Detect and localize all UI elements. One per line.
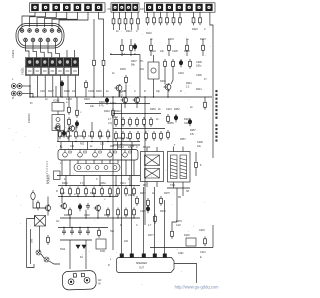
wire	[199, 12, 201, 15]
svg-text:R255: R255	[168, 122, 174, 125]
connector CN201 pin 5	[50, 29, 54, 33]
resistor R35	[91, 130, 94, 140]
capacitor C207	[174, 114, 177, 122]
transistor Q214 on heatsink	[123, 150, 128, 158]
wire	[47, 197, 49, 206]
wire	[172, 222, 177, 229]
junction	[64, 159, 65, 160]
connector CN203 pin 3	[52, 4, 60, 11]
resistor R231	[68, 105, 71, 115]
wire	[115, 176, 117, 186]
connector CN202 pin 11	[49, 67, 56, 74]
resistor R275	[160, 196, 163, 206]
wire	[69, 217, 71, 227]
svg-text:C206: C206	[196, 74, 202, 77]
resistor R247	[150, 117, 153, 127]
capacitor C218	[78, 229, 82, 236]
svg-text:C: C	[136, 224, 138, 227]
scan noise (decorative)	[9, 27, 211, 285]
junction	[94, 159, 95, 160]
wire	[87, 142, 89, 150]
capacitor C312	[146, 205, 149, 213]
transistor Q301	[54, 125, 60, 131]
junction	[79, 227, 80, 228]
wire CN201 pin 9 to CN202	[41, 42, 45, 58]
wire	[30, 229, 32, 264]
connector CN201 pin 6	[57, 29, 61, 33]
svg-text:D202: D202	[184, 234, 190, 237]
connector CN201 D-sub shell	[16, 24, 64, 49]
wire bus y227	[58, 227, 108, 229]
transistor Q207	[94, 204, 101, 211]
wire	[131, 26, 133, 30]
svg-text:R: R	[110, 53, 112, 56]
wire	[83, 176, 85, 186]
resistor R220	[172, 16, 175, 26]
wire	[72, 142, 74, 150]
wire assembly bottom bus	[57, 175, 140, 177]
wire	[153, 12, 155, 15]
wire	[121, 104, 123, 254]
connector CN201 pin 11	[54, 38, 58, 42]
connector CN202 pin 6	[64, 58, 71, 65]
wire	[139, 55, 141, 98]
resistor R306	[195, 160, 198, 170]
connector CN205 strip	[145, 3, 216, 12]
capacitor C201	[133, 43, 136, 51]
wire	[195, 170, 197, 176]
connector speaker terminal board	[117, 258, 175, 273]
wire	[202, 39, 204, 43]
wire	[87, 228, 89, 229]
wire	[131, 12, 133, 16]
wire	[77, 160, 79, 164]
svg-text:C203: C203	[66, 98, 72, 101]
svg-text:0.22: 0.22	[60, 192, 65, 195]
wire	[117, 160, 119, 164]
resistor R269	[107, 208, 110, 218]
wire	[91, 122, 93, 130]
tab of Q211	[84, 151, 86, 153]
wire	[150, 53, 152, 56]
wire	[167, 187, 190, 189]
capacitor C217	[70, 229, 74, 236]
junction	[85, 217, 86, 218]
wire	[41, 254, 44, 258]
connector CN205 pin 2	[156, 4, 163, 11]
svg-text:10u: 10u	[72, 90, 77, 93]
relay RY202 contact block 1	[145, 155, 160, 166]
relay RY203 box	[35, 216, 46, 227]
connector CN202 pin 14	[72, 67, 79, 74]
junction	[124, 159, 125, 160]
connector CN204 pin 1	[112, 4, 118, 11]
wire	[47, 211, 49, 216]
junction	[69, 217, 70, 218]
svg-text:POWER: POWER	[48, 174, 51, 184]
connector CN202 strip row 1	[26, 58, 79, 67]
wire main bus	[30, 96, 212, 98]
wire strip to CN201 pin 2	[30, 12, 46, 27]
svg-text:R: R	[120, 224, 122, 227]
connector J202 RCA jack	[11, 91, 30, 96]
resistor R37	[107, 130, 110, 140]
wire	[212, 225, 214, 248]
wire	[125, 160, 127, 176]
resistor R213	[130, 17, 133, 27]
wire	[121, 53, 123, 56]
resistor R242	[115, 117, 118, 127]
resistor R234	[112, 108, 115, 118]
connector CN203 pin 5	[74, 4, 82, 11]
wire	[166, 12, 168, 15]
resistor R305	[204, 100, 207, 110]
transformer T201 box	[168, 152, 191, 183]
junction	[29, 96, 30, 97]
connector CN202 pin 10	[42, 67, 49, 74]
wire	[150, 247, 213, 249]
wire	[39, 226, 41, 252]
relay RY202 box	[141, 152, 164, 182]
resistor R280	[37, 201, 40, 211]
connector CN203 strip	[30, 3, 106, 12]
svg-text:R241: R241	[196, 88, 202, 91]
wire strip to CN201 pin 5	[52, 12, 77, 27]
junction	[83, 185, 84, 186]
resistor R32	[67, 130, 70, 140]
relay RY202 contact block 2	[145, 169, 160, 179]
wire	[68, 127, 70, 142]
svg-text:0.22: 0.22	[176, 224, 181, 227]
resistor R224	[121, 43, 124, 53]
connector CN202 pin 9	[34, 67, 41, 74]
svg-text:R250: R250	[150, 108, 156, 111]
svg-text:100u: 100u	[196, 65, 202, 68]
junction	[77, 196, 78, 197]
transistor Q201	[68, 125, 75, 132]
resistor R214	[137, 17, 140, 27]
svg-text:F201: F201	[100, 250, 106, 253]
connector CN201 pin 9	[39, 38, 43, 42]
wire RCA L to bus	[29, 86, 31, 97]
junction	[32, 96, 33, 97]
wire	[133, 160, 135, 176]
wire bus y196	[58, 196, 118, 198]
resistor R302	[93, 58, 96, 68]
wire	[146, 147, 148, 152]
connector CN201 pin 4	[43, 29, 47, 33]
resistor R276	[154, 214, 157, 224]
svg-text:CN: CN	[108, 8, 112, 11]
transistor Q210 on heatsink	[63, 150, 68, 158]
switch S201 contact	[44, 257, 49, 262]
resistor R218	[159, 16, 162, 26]
resistor R31	[59, 130, 62, 140]
wire CN202 pin 13 down	[67, 76, 69, 98]
wire	[85, 210, 87, 218]
resistor R278	[204, 237, 207, 247]
svg-text:R279: R279	[176, 220, 182, 223]
resistor R219	[166, 16, 169, 26]
connector tab box	[54, 171, 61, 180]
connector CN204 strip	[111, 3, 139, 12]
wire	[59, 126, 61, 130]
svg-text:CN: CN	[140, 8, 144, 11]
wire	[69, 160, 71, 176]
wire	[27, 264, 35, 268]
wire	[57, 131, 59, 142]
wire CN202 pin 14 down	[75, 76, 77, 98]
capacitor C310	[62, 130, 65, 138]
svg-text:C211: C211	[88, 135, 94, 138]
svg-text:PC: PC	[140, 60, 144, 63]
svg-text:R223: R223	[200, 38, 206, 41]
wire bus down right of CN201	[93, 19, 95, 58]
connector AC plug P201	[62, 270, 96, 290]
svg-text:R220: R220	[184, 50, 190, 53]
junction	[167, 96, 168, 97]
svg-text:AC: AC	[56, 220, 60, 223]
resistor R36	[99, 130, 102, 140]
resistor R216	[146, 16, 149, 26]
connector CN202 pin 12	[57, 67, 64, 74]
wire	[55, 86, 57, 97]
connector CN205 pin 3	[166, 4, 173, 11]
IC power pack IC202	[58, 150, 138, 161]
svg-text:C205: C205	[172, 50, 178, 53]
wire	[182, 182, 184, 188]
wire CN202 pin 8 down	[29, 76, 31, 98]
wire	[93, 160, 95, 164]
resistor R221	[179, 16, 182, 26]
transistor Q205	[164, 83, 171, 91]
connector CN203 pin 1	[31, 4, 39, 11]
connector CN201 pin 10	[46, 38, 50, 42]
connector CN205 pin 6	[196, 4, 203, 11]
svg-text:R: R	[124, 90, 126, 93]
svg-text:R212: R212	[118, 137, 124, 140]
svg-text:R: R	[108, 264, 110, 267]
wire strip to CN201 pin 6	[59, 12, 88, 27]
resistor R244	[129, 117, 132, 127]
resistor R240	[189, 59, 192, 69]
wire CN202 pin 11 down	[52, 76, 54, 98]
svg-text:CN201: CN201	[11, 49, 15, 58]
capacitor C204	[179, 59, 182, 67]
svg-text:C207: C207	[40, 90, 46, 93]
junction	[29, 85, 30, 86]
junction	[115, 185, 116, 186]
resistor R251	[137, 131, 140, 141]
connector CN205 pin 5	[186, 4, 193, 11]
svg-text:R260: R260	[62, 182, 68, 185]
svg-text:C: C	[204, 28, 206, 31]
resistor R265	[117, 187, 120, 197]
junction	[91, 141, 92, 142]
svg-text:SPEAKER: SPEAKER	[136, 262, 147, 265]
wire	[57, 111, 59, 115]
wire	[125, 26, 127, 30]
svg-text:IN: IN	[98, 283, 101, 286]
wire	[120, 92, 123, 97]
resistor R264	[109, 187, 112, 197]
connector CN201 pin 2	[28, 29, 32, 33]
svg-text:R: R	[56, 190, 58, 193]
wire RCA R to bus	[30, 94, 33, 98]
wire	[61, 196, 63, 203]
resistor R303	[102, 58, 105, 68]
capacitor C216	[62, 229, 66, 236]
resistor R229	[202, 43, 205, 53]
resistor R212	[124, 17, 127, 27]
wire	[118, 91, 120, 97]
junction	[109, 159, 110, 160]
wire	[202, 53, 204, 56]
svg-text:R214: R214	[126, 30, 132, 33]
wire	[131, 147, 133, 254]
resistor R254	[160, 131, 163, 141]
resistor R281	[47, 235, 50, 245]
junction	[144, 96, 145, 97]
wire	[186, 39, 188, 43]
wire	[125, 12, 127, 16]
wire bus y185	[58, 185, 140, 187]
wire	[153, 55, 155, 62]
resistor R262	[93, 187, 96, 197]
resistor R260	[77, 187, 80, 197]
tab of Q213	[114, 151, 116, 153]
resistor R258	[61, 187, 64, 197]
svg-text:R262: R262	[100, 182, 106, 185]
resistor R255	[167, 114, 170, 124]
connector CN204 pin 4	[132, 4, 138, 11]
wire	[27, 216, 35, 219]
resistor R232	[68, 117, 71, 127]
wire CN201 pin 10 to CN202	[48, 42, 52, 58]
junction	[61, 96, 62, 97]
connector CN203 pin 7	[95, 4, 103, 11]
resistor R226	[150, 43, 153, 53]
resistor R34	[83, 130, 86, 140]
junction	[63, 227, 64, 228]
wire CN201 pin 11 to CN202	[56, 42, 60, 58]
svg-text:R: R	[12, 97, 14, 100]
junction	[133, 217, 134, 218]
svg-text:R242: R242	[115, 110, 121, 113]
wire	[85, 160, 87, 164]
svg-text:R32: R32	[80, 144, 85, 146]
wire	[154, 187, 156, 254]
wire to CN202 pin 6	[66, 50, 68, 58]
wire right rail	[210, 12, 213, 158]
junction	[93, 96, 94, 97]
resistor R245	[136, 117, 139, 127]
wire	[171, 69, 173, 84]
svg-text:220: 220	[124, 240, 129, 243]
junction	[61, 196, 62, 197]
wire	[146, 182, 148, 188]
wire strip to CN201 pin 4	[45, 12, 67, 27]
wire	[130, 53, 132, 56]
junction	[112, 96, 113, 97]
resistor R268	[69, 208, 72, 218]
resistor R227	[168, 43, 171, 53]
svg-text:C: C	[168, 90, 170, 93]
svg-text:10u: 10u	[197, 145, 202, 148]
wire bus y218	[60, 217, 140, 219]
resistor R210	[112, 17, 115, 27]
svg-text:R222: R222	[192, 28, 198, 31]
wire	[179, 12, 181, 15]
svg-text:T201: T201	[170, 184, 176, 187]
svg-text:RY202: RY202	[143, 146, 151, 149]
speaker terminal 3	[142, 254, 146, 258]
connector CN205 pin 4	[176, 4, 183, 11]
wire	[85, 240, 87, 252]
svg-text:R252: R252	[174, 108, 180, 111]
svg-text:R257: R257	[190, 129, 196, 132]
wire	[119, 26, 121, 30]
wire	[102, 142, 104, 150]
wire	[113, 113, 161, 115]
junction	[97, 217, 98, 218]
svg-text:R228: R228	[64, 90, 70, 93]
svg-text:R219: R219	[168, 38, 174, 41]
resistor R225	[130, 43, 133, 53]
junction	[107, 141, 108, 142]
resistor R223	[199, 16, 202, 26]
svg-text:RY: RY	[143, 184, 147, 187]
wire	[61, 160, 63, 176]
resistor R270	[117, 208, 120, 218]
wire	[164, 69, 166, 84]
connector CN201 pin 1	[20, 29, 24, 33]
wire	[130, 39, 132, 43]
wire	[60, 142, 62, 150]
svg-text:220: 220	[68, 135, 73, 138]
svg-text:CN202: CN202	[22, 67, 25, 75]
IC IC201 box	[52, 103, 64, 112]
svg-text:R227: R227	[48, 90, 54, 93]
svg-text:R271: R271	[104, 214, 110, 217]
tab of Q214	[129, 151, 131, 153]
junction	[99, 185, 100, 186]
wire to CN202 pin 7	[74, 50, 76, 58]
wire	[164, 200, 166, 254]
wire	[79, 228, 81, 229]
svg-text:C巧: C巧	[108, 122, 113, 125]
junction	[153, 96, 154, 97]
wire	[85, 90, 87, 97]
svg-text:4.7k: 4.7k	[99, 105, 104, 108]
wire	[69, 252, 71, 269]
wire	[117, 142, 119, 150]
svg-text:R36: R36	[130, 146, 135, 148]
svg-text:R236: R236	[120, 68, 126, 71]
resistor R271	[125, 208, 128, 218]
svg-text:IC201: IC201	[53, 100, 60, 103]
wire CN202 pin 10 down	[44, 76, 46, 98]
resistor R263	[101, 187, 104, 197]
svg-text:47u: 47u	[124, 214, 129, 217]
resistor R250	[129, 131, 132, 141]
junction	[93, 196, 94, 197]
capacitor C305	[60, 80, 63, 88]
connector CN204 pin 2	[119, 4, 125, 11]
svg-text:R216: R216	[146, 32, 152, 35]
resistor R239	[172, 59, 175, 69]
tab of Q210	[69, 151, 71, 153]
